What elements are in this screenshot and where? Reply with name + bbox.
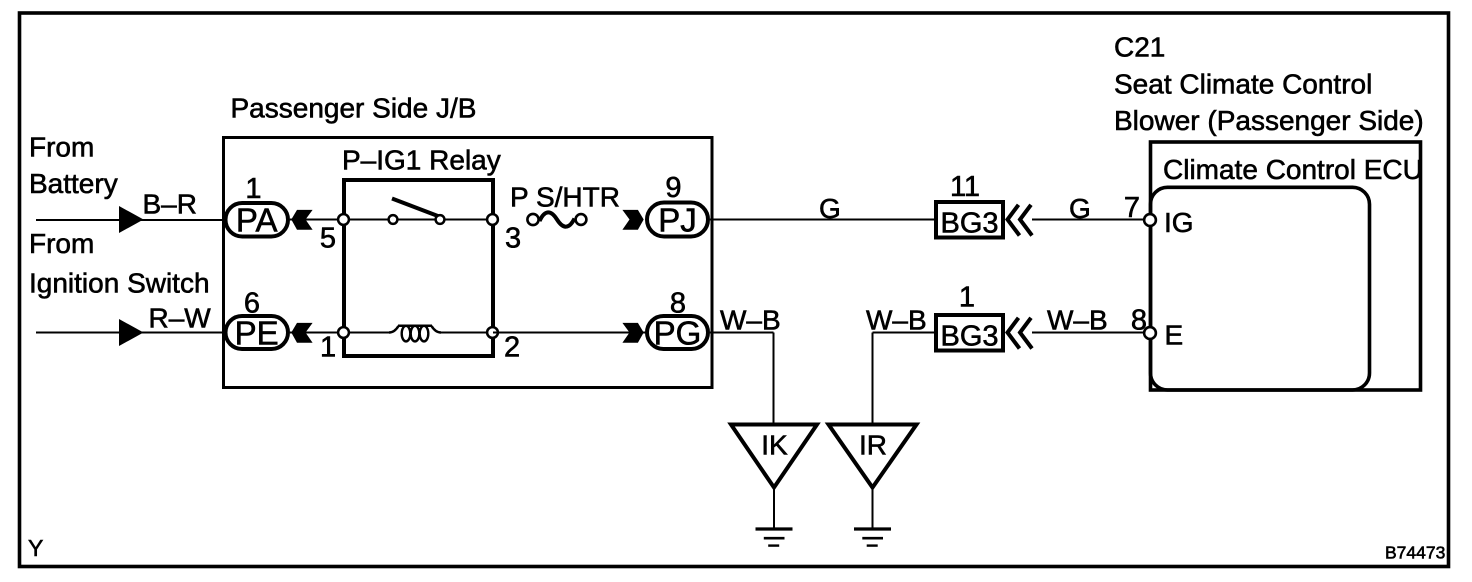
svg-text:1: 1: [320, 332, 336, 364]
switch blade: [392, 199, 441, 218]
relay terminal pin 5: [338, 214, 349, 225]
relay coil terminal pin 2: [487, 327, 498, 338]
svg-text:7: 7: [1124, 192, 1140, 224]
svg-text:PJ: PJ: [658, 202, 697, 239]
svg-text:3: 3: [505, 223, 521, 255]
relay coil terminal pin 1: [338, 327, 349, 338]
svg-text:8: 8: [1131, 305, 1147, 337]
wire down to IK: [773, 333, 775, 426]
connector PJ: [647, 202, 708, 239]
ground symbol under IR: [854, 489, 891, 546]
blower outer box: [1151, 142, 1421, 390]
notched arrow at PA: [291, 210, 312, 230]
svg-text:IG: IG: [1164, 207, 1194, 238]
svg-text:Blower (Passenger Side): Blower (Passenger Side): [1114, 105, 1424, 136]
svg-text:B–R: B–R: [143, 189, 197, 220]
svg-text:1: 1: [245, 173, 261, 205]
chevrons row 1: [1008, 205, 1020, 236]
connector BG3 (row 1): [936, 202, 1003, 240]
svg-text:W–B: W–B: [720, 305, 781, 336]
svg-text:IR: IR: [859, 430, 887, 461]
P-IG1 relay box: [344, 180, 493, 356]
svg-text:C21: C21: [1114, 32, 1165, 63]
svg-text:Y: Y: [28, 535, 43, 561]
wire chevrons to IG pin: [1032, 219, 1144, 221]
svg-text:From: From: [29, 228, 94, 259]
chevrons row 2: [1008, 318, 1020, 349]
svg-text:1: 1: [959, 282, 975, 314]
wire from battery to PA: [36, 219, 226, 221]
svg-text:W–B: W–B: [1047, 305, 1108, 336]
notched arrow into PG: [622, 323, 643, 343]
svg-text:PA: PA: [236, 202, 278, 239]
wire relay pin 3 internal row: [344, 219, 493, 221]
wire PG to ground IK: [710, 332, 774, 334]
svg-text:9: 9: [665, 172, 681, 204]
svg-text:PG: PG: [654, 315, 702, 352]
switch contact right: [436, 215, 445, 224]
svg-text:PE: PE: [235, 315, 279, 352]
svg-text:G: G: [819, 193, 841, 224]
svg-text:P–IG1 Relay: P–IG1 Relay: [342, 145, 501, 176]
terminal IG pin 7: [1144, 214, 1156, 226]
wire coil to relay pin 2: [439, 332, 493, 334]
ground IK triangle: [731, 425, 817, 488]
svg-text:Passenger Side J/B: Passenger Side J/B: [231, 93, 477, 124]
connector PA: [226, 202, 289, 239]
svg-text:11: 11: [950, 171, 980, 203]
notched arrow at PE: [291, 323, 312, 343]
switch contact left: [389, 215, 398, 224]
svg-text:5: 5: [320, 223, 336, 255]
svg-text:Battery: Battery: [29, 168, 118, 199]
relay coil: [389, 326, 441, 342]
svg-text:From: From: [29, 132, 94, 163]
wire chevrons to E pin: [1032, 332, 1144, 334]
wire relay pin 1 to PE row: [290, 332, 391, 334]
svg-text:Ignition Switch: Ignition Switch: [29, 268, 210, 299]
terminal E pin 8: [1144, 327, 1156, 339]
arrow into PA wire: [119, 206, 144, 233]
svg-text:E: E: [1165, 320, 1184, 351]
arrow into PE wire: [119, 319, 144, 346]
connector PE: [226, 315, 289, 352]
connector BG3 (row 2): [936, 315, 1003, 353]
svg-text:R–W: R–W: [149, 303, 212, 334]
wire IR up and right to BG3: [872, 333, 874, 426]
svg-text:6: 6: [244, 288, 260, 320]
svg-text:W–B: W–B: [866, 305, 927, 336]
svg-text:BG3: BG3: [940, 321, 998, 353]
wire PJ to BG3: [710, 219, 934, 221]
fuse P S/HTR element: [527, 212, 586, 226]
svg-text:BG3: BG3: [940, 208, 998, 240]
relay terminal pin 3: [487, 214, 498, 225]
wire from ignition switch to PE: [36, 332, 226, 334]
connector PG: [647, 315, 708, 352]
svg-text:P S/HTR: P S/HTR: [510, 182, 620, 213]
svg-text:B74473: B74473: [1385, 543, 1445, 563]
climate control ECU rounded box: [1151, 187, 1370, 390]
wire PA to relay pin 5: [290, 219, 344, 221]
ground symbol under IK: [756, 489, 793, 546]
svg-text:Seat Climate Control: Seat Climate Control: [1114, 69, 1372, 100]
notched arrow into PJ: [622, 210, 643, 230]
svg-text:IK: IK: [761, 430, 788, 461]
svg-text:Climate Control ECU: Climate Control ECU: [1163, 154, 1423, 185]
svg-text:2: 2: [504, 332, 520, 364]
ground IR triangle: [829, 425, 917, 488]
wire PG row inside J/B: [493, 332, 646, 334]
Passenger Side J/B box: [224, 138, 713, 388]
svg-text:G: G: [1069, 193, 1091, 224]
